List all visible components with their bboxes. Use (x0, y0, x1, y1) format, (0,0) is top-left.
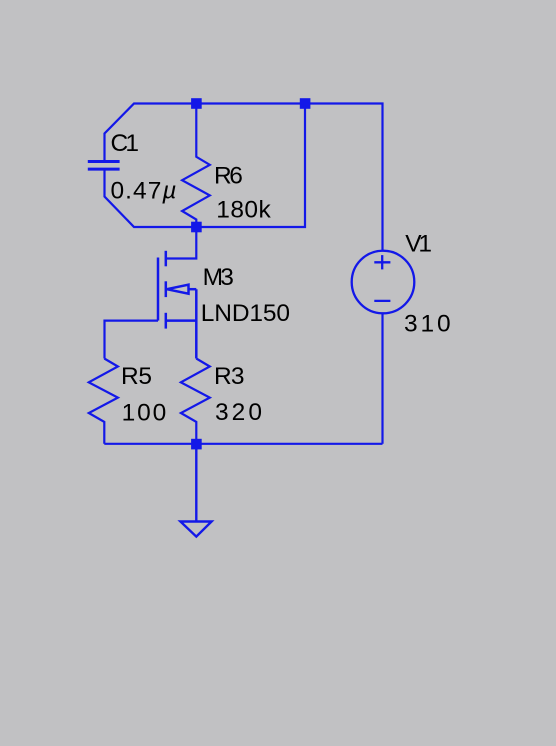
svg-text:C1: C1 (111, 130, 140, 157)
ground (180, 444, 211, 537)
resistor R3 (181, 359, 210, 444)
wire C1 bottom lead, chamfer, horizontal to right loop, up to top rail (105, 104, 306, 228)
resistor R6 (182, 104, 210, 228)
resistor R5 (89, 359, 118, 444)
svg-text:V1: V1 (405, 230, 432, 257)
transistor M3 (158, 251, 196, 359)
wire V1 bottom lead (381, 313, 383, 444)
svg-text:M3: M3 (203, 264, 234, 291)
voltage source V1 (352, 251, 415, 314)
svg-text:310: 310 (404, 311, 451, 338)
wire M3 gate to R5 top (105, 321, 159, 359)
svg-text:320: 320 (215, 399, 262, 426)
svg-text:0.47µ: 0.47µ (111, 177, 177, 204)
svg-text:100: 100 (122, 400, 167, 427)
svg-text:180k: 180k (216, 197, 271, 224)
node junction at right loop top (300, 98, 311, 109)
node junction at R6 bottom (191, 222, 202, 233)
node junction at R6 top (191, 98, 202, 109)
wire R6 bottom junction down to M3 drain (166, 227, 197, 259)
svg-text:LND150: LND150 (201, 300, 290, 327)
wire bottom rail (104, 443, 382, 445)
node junction at bottom rail / ground (191, 439, 202, 450)
capacitor C1 (88, 162, 120, 170)
svg-text:R6: R6 (214, 163, 243, 190)
svg-text:R3: R3 (214, 363, 245, 390)
svg-text:R5: R5 (121, 363, 152, 390)
wire top loop: C1 top lead, chamfer, top rail, right rail down to V1 (105, 104, 383, 251)
